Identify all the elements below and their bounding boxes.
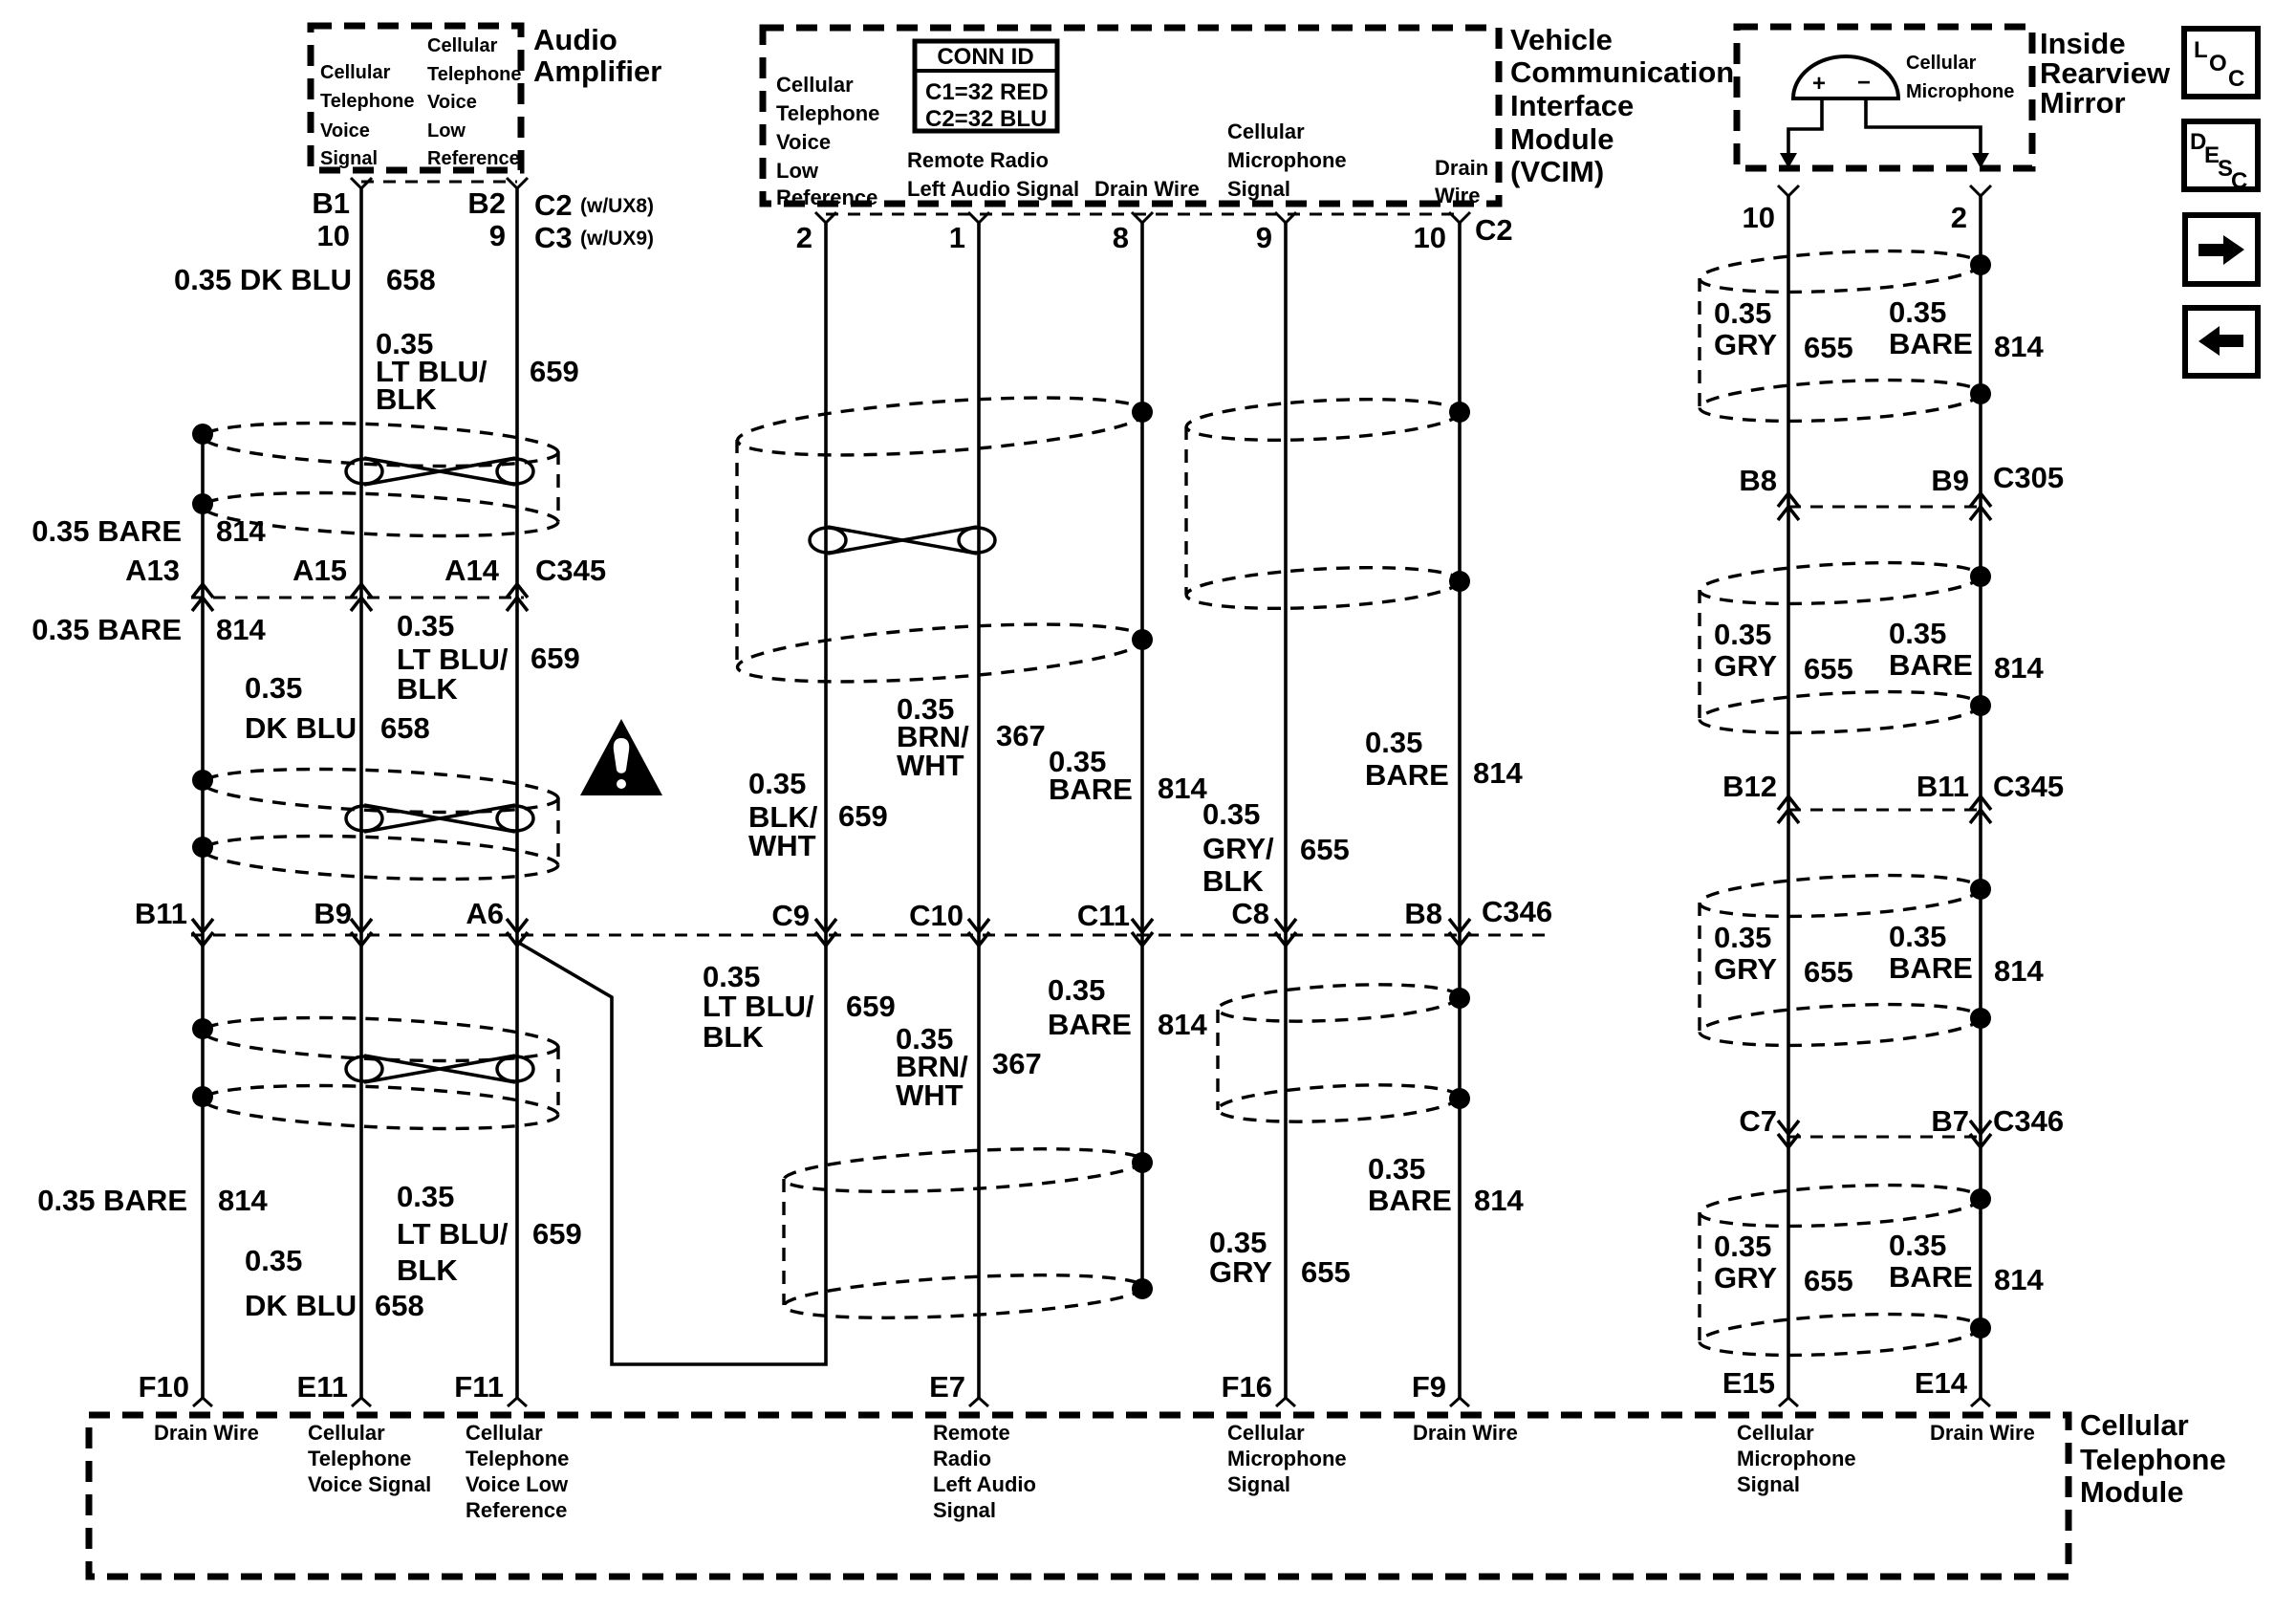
svg-text:F9: F9 — [1412, 1370, 1446, 1404]
svg-text:Cellular: Cellular — [1906, 53, 1977, 74]
svg-text:0.35: 0.35 — [245, 1244, 302, 1277]
pin 9 connector fork — [1275, 212, 1296, 223]
junction dot — [1970, 695, 1991, 716]
svg-text:0.35: 0.35 — [1889, 920, 1946, 953]
svg-text:0.35: 0.35 — [1202, 797, 1260, 831]
svg-text:10: 10 — [317, 219, 350, 252]
svg-text:GRY: GRY — [1714, 328, 1777, 361]
svg-text:WHT: WHT — [897, 749, 964, 782]
pin E15 connector fork — [1779, 1398, 1798, 1406]
svg-text:B11: B11 — [1917, 770, 1969, 803]
svg-text:B9: B9 — [314, 897, 352, 930]
svg-text:814: 814 — [1994, 954, 2044, 988]
svg-text:GRY: GRY — [1714, 649, 1777, 683]
svg-text:O: O — [2209, 51, 2227, 76]
svg-text:B1: B1 — [312, 186, 350, 220]
svg-text:814: 814 — [1994, 1263, 2044, 1296]
junction dot — [1970, 254, 1991, 275]
svg-text:Cellular: Cellular — [308, 1421, 385, 1445]
svg-text:0.35: 0.35 — [703, 960, 760, 993]
svg-text:Drain Wire: Drain Wire — [154, 1421, 259, 1445]
svg-text:Left Audio Signal: Left Audio Signal — [907, 177, 1079, 201]
svg-text:C11: C11 — [1077, 899, 1130, 932]
junction dot — [192, 493, 213, 514]
pin 10 connector fork (mirror) — [1778, 185, 1799, 196]
svg-text:BLK: BLK — [397, 672, 458, 706]
svg-text:814: 814 — [1474, 1184, 1524, 1217]
junction dot — [1449, 988, 1470, 1009]
svg-text:Low: Low — [427, 120, 466, 142]
svg-text:C305: C305 — [1993, 461, 2064, 494]
svg-text:9: 9 — [1256, 221, 1272, 254]
svg-text:A15: A15 — [292, 554, 347, 587]
svg-text:0.35: 0.35 — [1889, 295, 1946, 329]
svg-text:Microphone: Microphone — [1906, 81, 2014, 102]
svg-text:E15: E15 — [1722, 1366, 1775, 1400]
svg-text:814: 814 — [1473, 756, 1523, 790]
twisted pair shield group B (left, mid) — [192, 763, 559, 885]
svg-text:Signal: Signal — [320, 148, 378, 169]
svg-text:GRY: GRY — [1714, 952, 1777, 986]
svg-text:Cellular: Cellular — [1227, 120, 1305, 143]
svg-text:Module: Module — [2080, 1475, 2184, 1509]
twist symbol C — [346, 1056, 533, 1082]
svg-text:(w/UX9): (w/UX9) — [580, 228, 654, 250]
junction dot — [1449, 402, 1470, 423]
svg-text:B11: B11 — [135, 897, 187, 930]
svg-text:0.35: 0.35 — [1048, 973, 1105, 1007]
junction dot — [192, 1018, 213, 1039]
junction dot — [1970, 1317, 1991, 1339]
wire remote radio left audio signal 1-C10-E7 — [977, 223, 981, 1398]
svg-text:0.35 BARE: 0.35 BARE — [37, 1184, 187, 1217]
svg-text:Telephone: Telephone — [466, 1447, 569, 1470]
svg-text:Mirror: Mirror — [2040, 86, 2126, 120]
twist symbol D — [810, 527, 995, 554]
wire cellular telephone voice signal B1-E11 — [359, 187, 363, 1398]
svg-text:Signal: Signal — [933, 1498, 996, 1522]
svg-text:0.35: 0.35 — [1365, 726, 1422, 759]
svg-text:C3: C3 — [534, 221, 573, 254]
svg-text:Cellular: Cellular — [776, 73, 854, 97]
svg-text:658: 658 — [375, 1289, 424, 1322]
svg-text:LT BLU/: LT BLU/ — [703, 990, 814, 1023]
svg-text:659: 659 — [846, 990, 896, 1023]
svg-text:659: 659 — [532, 1217, 582, 1251]
svg-text:BLK: BLK — [376, 382, 437, 416]
svg-text:Cellular: Cellular — [320, 62, 391, 83]
svg-text:GRY/: GRY/ — [1202, 832, 1274, 865]
pin C9 chevron — [815, 919, 836, 946]
svg-text:B2: B2 — [467, 186, 506, 220]
twisted pair shield group E (middle right) — [1185, 394, 1470, 615]
twist symbol A — [346, 458, 533, 485]
junction dot — [192, 1086, 213, 1107]
junction dot — [1970, 1188, 1991, 1209]
svg-text:C7: C7 — [1739, 1104, 1777, 1138]
svg-text:658: 658 — [386, 263, 436, 296]
svg-text:WHT: WHT — [748, 829, 816, 862]
svg-text:0.35: 0.35 — [748, 767, 806, 800]
connector C2 line below VCIM — [826, 213, 1460, 216]
svg-text:BARE: BARE — [1365, 758, 1449, 792]
svg-text:B8: B8 — [1404, 897, 1442, 930]
svg-text:655: 655 — [1300, 833, 1350, 866]
twisted pair shield group G (middle lower) — [783, 1142, 1153, 1325]
svg-text:Cellular: Cellular — [427, 35, 498, 56]
pin 2 connector fork — [815, 212, 836, 223]
junction dot — [192, 837, 213, 858]
pin B9 chevron — [351, 919, 372, 946]
svg-text:A14: A14 — [444, 554, 500, 587]
svg-text:Remote: Remote — [933, 1421, 1010, 1445]
svg-text:BARE: BARE — [1889, 1260, 1973, 1294]
wire drain (left) B11/F10 — [201, 434, 205, 1398]
svg-text:LT BLU/: LT BLU/ — [397, 642, 509, 676]
connector C346 row (main) — [191, 934, 1547, 937]
svg-text:F11: F11 — [454, 1370, 504, 1404]
svg-text:BARE: BARE — [1889, 951, 1973, 985]
twisted pair shield group H (right col 1) — [1699, 245, 1991, 426]
svg-text:WHT: WHT — [896, 1078, 964, 1112]
svg-text:659: 659 — [838, 799, 888, 833]
pin C11 chevron — [1132, 919, 1153, 946]
svg-text:Left Audio: Left Audio — [933, 1472, 1036, 1496]
pin E14 connector fork — [1971, 1398, 1990, 1406]
svg-text:814: 814 — [218, 1184, 268, 1217]
svg-text:Microphone: Microphone — [1227, 148, 1347, 172]
pin B1 connector fork — [351, 178, 372, 188]
module Cellular Telephone Module box — [89, 1408, 2226, 1577]
connector C345 row (left) — [191, 597, 524, 599]
svg-text:2: 2 — [796, 221, 812, 254]
twisted pair shield group F (below C346 right-mid) — [1217, 979, 1470, 1126]
svg-text:Telephone: Telephone — [2080, 1443, 2226, 1476]
svg-text:0.35 BARE: 0.35 BARE — [32, 613, 182, 646]
CONN ID table — [915, 41, 1057, 132]
svg-text:F10: F10 — [139, 1370, 189, 1404]
svg-text:0.35: 0.35 — [1714, 1230, 1771, 1263]
svg-text:Signal: Signal — [1227, 1472, 1290, 1496]
svg-text:Drain Wire: Drain Wire — [1094, 177, 1200, 201]
svg-text:Reference: Reference — [466, 1498, 567, 1522]
pin F10 connector fork — [193, 1398, 212, 1406]
svg-text:Voice Signal: Voice Signal — [308, 1472, 431, 1496]
svg-text:C345: C345 — [535, 554, 606, 587]
svg-text:0.35: 0.35 — [1209, 1226, 1267, 1259]
svg-text:Communication: Communication — [1510, 55, 1734, 89]
LOC legend box — [2184, 29, 2258, 97]
module Audio Amplifier box — [311, 23, 661, 170]
svg-text:Reference: Reference — [427, 148, 520, 169]
svg-text:B7: B7 — [1931, 1104, 1969, 1138]
svg-text:Voice: Voice — [320, 120, 370, 142]
svg-text:0.35: 0.35 — [1714, 296, 1771, 330]
svg-text:−: − — [1857, 70, 1871, 96]
pin B8 chevron — [1449, 919, 1470, 946]
svg-text:Drain Wire: Drain Wire — [1930, 1421, 2035, 1445]
svg-text:655: 655 — [1301, 1255, 1351, 1289]
left arrow legend box — [2185, 308, 2258, 376]
wire cellular microphone signal 9-C8-F16 — [1284, 223, 1288, 1398]
pin B2 connector fork — [507, 178, 528, 188]
svg-text:C2: C2 — [534, 188, 573, 222]
svg-text:1: 1 — [949, 221, 965, 254]
svg-text:BLK: BLK — [703, 1020, 764, 1054]
svg-text:659: 659 — [531, 642, 580, 675]
svg-text:E7: E7 — [929, 1370, 965, 1404]
svg-text:10: 10 — [1414, 221, 1446, 254]
svg-text:B9: B9 — [1931, 464, 1969, 497]
svg-text:Cellular: Cellular — [466, 1421, 543, 1445]
svg-text:Audio: Audio — [533, 23, 617, 56]
svg-text:10: 10 — [1743, 201, 1775, 234]
twisted pair shield group C (left, low) — [192, 1012, 559, 1135]
junction dot — [1970, 566, 1991, 587]
svg-text:(w/UX8): (w/UX8) — [580, 195, 654, 217]
svg-text:GRY: GRY — [1209, 1255, 1272, 1289]
svg-text:0.35: 0.35 — [1368, 1152, 1425, 1186]
DESC legend box — [2184, 121, 2258, 194]
svg-text:DK BLU: DK BLU — [245, 1289, 357, 1322]
pin B7 chevron (C346) — [1970, 1121, 1991, 1147]
svg-text:C1=32 RED: C1=32 RED — [925, 79, 1049, 105]
svg-text:367: 367 — [992, 1047, 1042, 1080]
svg-text:A6: A6 — [466, 897, 504, 930]
svg-text:658: 658 — [380, 711, 430, 745]
svg-text:0.35: 0.35 — [1714, 921, 1771, 954]
svg-text:0.35: 0.35 — [245, 671, 302, 705]
junction dot — [1132, 629, 1153, 650]
svg-text:Radio: Radio — [933, 1447, 991, 1470]
junction dot — [1132, 1152, 1153, 1173]
junction dot — [1970, 1008, 1991, 1029]
wire drain 8-C11 — [1140, 223, 1144, 1293]
svg-text:9: 9 — [489, 219, 506, 252]
connector C305 row (right) — [1788, 506, 1981, 509]
svg-text:C2: C2 — [1475, 213, 1513, 247]
svg-text:Drain Wire: Drain Wire — [1413, 1421, 1518, 1445]
cellular microphone symbol — [1780, 56, 1989, 168]
pin A14 chevron — [507, 584, 528, 611]
svg-text:E11: E11 — [297, 1370, 348, 1404]
junction dot — [1449, 1088, 1470, 1109]
svg-text:Voice: Voice — [776, 130, 831, 154]
svg-text:B8: B8 — [1739, 464, 1777, 497]
svg-text:814: 814 — [216, 514, 266, 548]
twisted pair shield group I (right col 2) — [1699, 556, 1991, 738]
svg-text:Low: Low — [776, 159, 819, 183]
wire VCIM pin2 voice low reference C9 — [824, 223, 828, 935]
junction dot — [192, 770, 213, 791]
svg-text:C9: C9 — [771, 899, 810, 932]
junction dot — [1132, 1278, 1153, 1299]
svg-text:655: 655 — [1804, 955, 1853, 989]
svg-text:814: 814 — [1994, 651, 2044, 685]
svg-text:655: 655 — [1804, 652, 1853, 686]
svg-text:367: 367 — [996, 719, 1046, 752]
pin C7 chevron (C346) — [1778, 1121, 1799, 1147]
pin E11 connector fork — [352, 1398, 371, 1406]
twist symbol B — [346, 805, 533, 832]
right arrow legend box — [2185, 215, 2258, 284]
svg-text:0.35: 0.35 — [1714, 618, 1771, 651]
wire drain 10-B8-F9 — [1458, 223, 1462, 1398]
pin A6 chevron — [507, 919, 528, 946]
svg-text:814: 814 — [1158, 772, 1207, 805]
svg-text:Voice Low: Voice Low — [466, 1472, 569, 1496]
svg-text:Module: Module — [1510, 122, 1614, 156]
pin E7 connector fork — [969, 1398, 988, 1406]
svg-text:Inside: Inside — [2040, 27, 2126, 60]
svg-text:A13: A13 — [125, 554, 180, 587]
svg-text:BARE: BARE — [1368, 1184, 1452, 1217]
svg-text:F16: F16 — [1222, 1370, 1272, 1404]
svg-text:Remote Radio: Remote Radio — [907, 148, 1049, 172]
svg-text:Telephone: Telephone — [308, 1447, 411, 1470]
wire cellular telephone voice low reference B2-F11 — [515, 187, 519, 1398]
svg-text:BARE: BARE — [1049, 773, 1133, 806]
twisted pair shield group J (right col 3) — [1699, 869, 1991, 1051]
svg-text:C: C — [2228, 66, 2244, 92]
pin C8 chevron — [1275, 919, 1296, 946]
connector C345 row (right) — [1788, 809, 1981, 812]
svg-text:CONN ID: CONN ID — [937, 44, 1033, 70]
svg-text:Telephone: Telephone — [427, 64, 522, 85]
twisted pair shield group K (right col 4) — [1699, 1179, 1991, 1361]
svg-text:C345: C345 — [1993, 770, 2064, 803]
pin B11 chevron — [192, 919, 213, 946]
svg-text:Wire: Wire — [1435, 184, 1480, 207]
svg-text:0.35: 0.35 — [1889, 1229, 1946, 1262]
svg-text:Cellular: Cellular — [1227, 1421, 1305, 1445]
svg-text:B12: B12 — [1722, 770, 1777, 803]
svg-text:C: C — [2231, 168, 2247, 194]
pin F11 connector fork — [508, 1398, 527, 1406]
svg-text:Signal: Signal — [1227, 177, 1290, 201]
svg-text:LT BLU/: LT BLU/ — [397, 1217, 509, 1251]
svg-text:C346: C346 — [1993, 1104, 2064, 1138]
pin 10 connector fork — [1449, 212, 1470, 223]
svg-text:0.35 BARE: 0.35 BARE — [32, 514, 182, 548]
twisted pair shield group D (middle large) — [736, 387, 1153, 692]
svg-text:814: 814 — [216, 613, 266, 646]
svg-text:0.35: 0.35 — [397, 609, 454, 642]
svg-text:655: 655 — [1804, 331, 1853, 364]
svg-text:Interface: Interface — [1510, 89, 1634, 122]
svg-text:DK BLU: DK BLU — [245, 711, 357, 745]
svg-text:814: 814 — [1158, 1008, 1207, 1041]
svg-text:0.35 DK BLU: 0.35 DK BLU — [174, 263, 352, 296]
svg-text:Reference: Reference — [776, 185, 877, 209]
pin 2 connector fork (mirror) — [1970, 185, 1991, 196]
svg-text:BARE: BARE — [1889, 327, 1973, 360]
svg-text:(VCIM): (VCIM) — [1510, 155, 1604, 188]
svg-text:BARE: BARE — [1889, 648, 1973, 682]
svg-text:0.35: 0.35 — [397, 1180, 454, 1213]
pin B11 chevron (C345) — [1970, 796, 1991, 823]
svg-text:Cellular: Cellular — [1737, 1421, 1814, 1445]
connector C346 row (right) — [1788, 1136, 1981, 1139]
svg-text:659: 659 — [530, 355, 579, 388]
svg-text:C10: C10 — [909, 899, 964, 932]
svg-text:Telephone: Telephone — [320, 91, 415, 112]
connector line below audio amplifier — [361, 181, 517, 184]
junction dot — [1132, 402, 1153, 423]
pin B12 chevron (C345) — [1778, 796, 1799, 823]
svg-text:C2=32 BLU: C2=32 BLU — [925, 106, 1047, 132]
warning symbol — [580, 719, 662, 795]
svg-text:8: 8 — [1113, 221, 1129, 254]
twisted pair shield group A (left, top) — [192, 417, 559, 542]
pin 1 connector fork — [968, 212, 989, 223]
svg-text:GRY: GRY — [1714, 1261, 1777, 1295]
svg-text:C8: C8 — [1231, 897, 1269, 930]
wire cellular microphone signal 10-E15 (right) — [1787, 196, 1790, 1398]
svg-text:Amplifier: Amplifier — [533, 54, 661, 88]
pin C10 chevron — [968, 919, 989, 946]
pin B9 chevron (C305) — [1970, 493, 1991, 520]
junction dot — [192, 424, 213, 445]
svg-text:0.35: 0.35 — [1889, 617, 1946, 650]
junction dot — [1449, 571, 1470, 592]
svg-text:Cellular: Cellular — [2080, 1408, 2189, 1442]
svg-text:655: 655 — [1804, 1264, 1853, 1297]
svg-text:Voice: Voice — [427, 92, 477, 113]
svg-text:2: 2 — [1951, 201, 1967, 234]
svg-text:BLK: BLK — [397, 1253, 458, 1287]
pin B8 chevron (C305) — [1778, 493, 1799, 520]
pin 8 connector fork — [1132, 212, 1153, 223]
pin F16 connector fork — [1276, 1398, 1295, 1406]
wire drain 2-E14 (right) — [1979, 196, 1982, 1398]
module Vehicle Communication Interface Module (VCIM) box — [763, 23, 1734, 209]
svg-text:814: 814 — [1994, 330, 2044, 363]
svg-text:E14: E14 — [1915, 1366, 1968, 1400]
svg-text:BARE: BARE — [1048, 1008, 1132, 1041]
pin F9 connector fork — [1450, 1398, 1469, 1406]
junction dot — [1970, 383, 1991, 404]
svg-text:Signal: Signal — [1737, 1472, 1800, 1496]
pin A13 chevron — [192, 584, 213, 611]
pin A15 chevron — [351, 584, 372, 611]
svg-text:BLK: BLK — [1202, 864, 1264, 898]
junction dot — [1970, 879, 1991, 900]
svg-text:+: + — [1812, 71, 1826, 97]
svg-text:C346: C346 — [1482, 895, 1552, 928]
svg-text:Microphone: Microphone — [1737, 1447, 1856, 1470]
svg-text:Rearview: Rearview — [2040, 56, 2171, 90]
wire A6 to C9 U-route — [517, 935, 826, 1364]
svg-text:Microphone: Microphone — [1227, 1447, 1347, 1470]
svg-text:Vehicle: Vehicle — [1510, 23, 1613, 56]
svg-text:Telephone: Telephone — [776, 101, 879, 125]
svg-text:Drain: Drain — [1435, 156, 1488, 180]
svg-text:L: L — [2194, 37, 2208, 63]
module Inside Rearview Mirror box — [1737, 27, 2171, 168]
